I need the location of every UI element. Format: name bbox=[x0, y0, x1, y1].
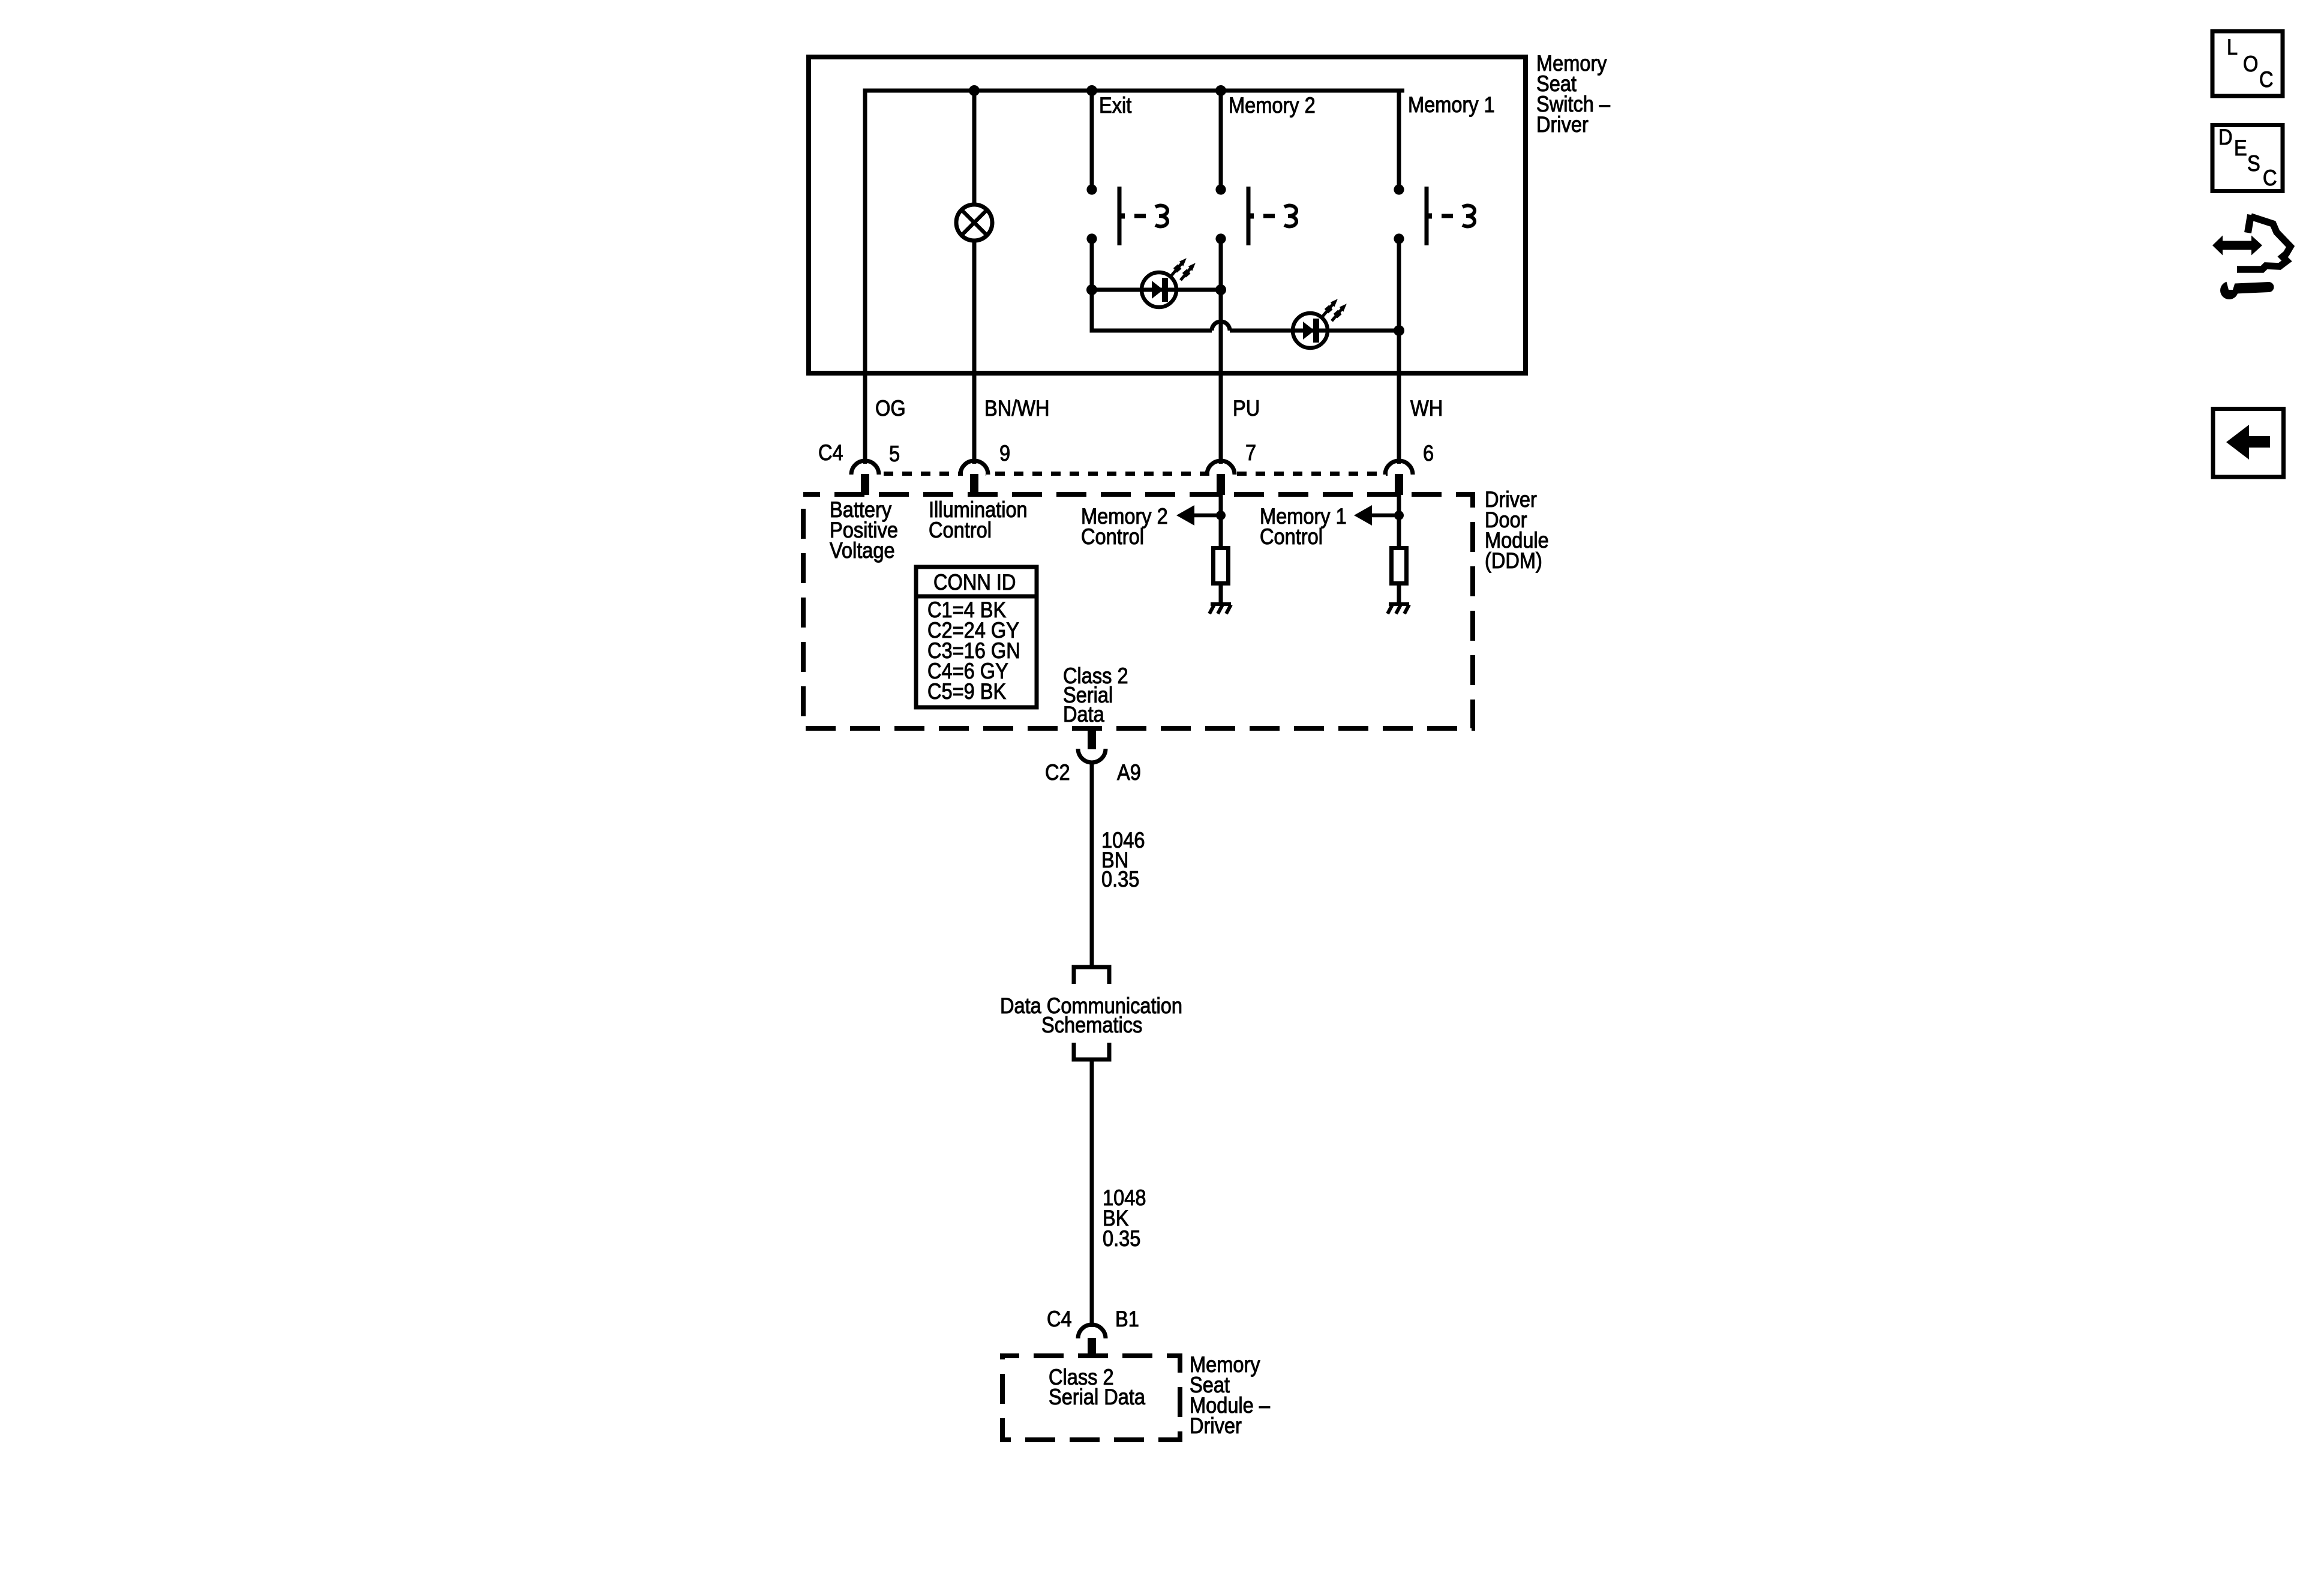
wire: WH memory 1 control bbox=[1397, 373, 1401, 464]
label: Illumination Control bbox=[929, 497, 1028, 542]
svg-text:C: C bbox=[2259, 67, 2274, 92]
svg-text:C4: C4 bbox=[1047, 1307, 1072, 1331]
signal arrow: Memory 2 Control bbox=[1176, 505, 1226, 526]
connector C4 pin 6 bbox=[1385, 461, 1413, 495]
connector C4 pin 5 bbox=[851, 461, 879, 495]
svg-text:Driver: Driver bbox=[1536, 112, 1589, 137]
label: Class 2 Serial Data (DDM pin) bbox=[1063, 664, 1128, 727]
svg-text:6: 6 bbox=[1423, 441, 1434, 466]
node: LED1 row at Exit column bbox=[1086, 284, 1097, 295]
node: bus junction at illumination lamp bbox=[969, 85, 980, 96]
svg-text:Memory 1: Memory 1 bbox=[1408, 92, 1495, 117]
svg-text:S: S bbox=[2247, 151, 2260, 176]
harness dashed line at connector C4 bbox=[865, 472, 1399, 476]
wire: battery supply bus (top horizontal) bbox=[865, 91, 1404, 373]
switch: Memory 2 (momentary) bbox=[1215, 184, 1296, 245]
connector C2 pin A9 bbox=[1078, 728, 1106, 763]
value label: 1048 BK 0.35 bbox=[1103, 1185, 1146, 1251]
svg-text:WH: WH bbox=[1410, 396, 1443, 421]
node: LED1 row at Memory 2 column bbox=[1215, 284, 1226, 295]
svg-text:Serial Data: Serial Data bbox=[1049, 1385, 1146, 1409]
icon: LOC button bbox=[2212, 31, 2283, 96]
svg-text:C2: C2 bbox=[1045, 760, 1070, 785]
wire: resistor to ground (Memory 1) bbox=[1397, 583, 1401, 603]
wire: BN/WH illumination control bbox=[972, 373, 977, 464]
off-page connector: Data Communication Schematics (bottom bracket) bbox=[1074, 1043, 1109, 1059]
svg-text:CONN ID: CONN ID bbox=[933, 570, 1016, 595]
wire: OG battery positive voltage bbox=[863, 373, 867, 464]
lamp: illumination bulb bbox=[956, 205, 992, 241]
label: pin B1 bbox=[1115, 1307, 1139, 1331]
svg-text:B1: B1 bbox=[1115, 1307, 1139, 1331]
svg-text:Memory 2: Memory 2 bbox=[1229, 93, 1316, 118]
label: Memory 2 bbox=[1229, 93, 1316, 118]
svg-text:Voltage: Voltage bbox=[830, 538, 895, 563]
label: Exit bbox=[1099, 93, 1132, 118]
svg-text:Exit: Exit bbox=[1099, 93, 1132, 118]
pin number 7 bbox=[1245, 440, 1256, 465]
svg-text:L: L bbox=[2227, 35, 2238, 59]
svg-text:C: C bbox=[2263, 166, 2277, 190]
label: Memory 2 Control bbox=[1081, 504, 1168, 549]
svg-text:5: 5 bbox=[889, 442, 900, 466]
resistor: Memory 2 input pull bbox=[1214, 548, 1229, 584]
label: Class 2 Serial Data (memory seat module pin) bbox=[1049, 1365, 1146, 1409]
label: Driver Door Module (DDM) bbox=[1485, 487, 1549, 573]
label: Data Communication Schematics bbox=[1000, 993, 1182, 1037]
wire: WH inside DDM to resistor bbox=[1397, 494, 1401, 548]
connector C4 pin B1 bbox=[1078, 1325, 1106, 1357]
off-page connector: Data Communication Schematics (top bracket) bbox=[1074, 967, 1109, 984]
label: connector C4 bbox=[818, 440, 843, 465]
wire: circuit 1046 BN 0.35 class 2 serial data bbox=[1090, 761, 1094, 967]
connector C4 pin 7 bbox=[1207, 461, 1235, 495]
wire: PU inside DDM to resistor bbox=[1219, 494, 1223, 548]
svg-text:BN/WH: BN/WH bbox=[984, 396, 1050, 421]
label: pin A9 bbox=[1117, 760, 1141, 785]
svg-text:Control: Control bbox=[1081, 524, 1144, 549]
svg-text:Control: Control bbox=[1260, 524, 1323, 549]
wire: Memory 2 switch column (PU output) bbox=[1219, 91, 1223, 373]
label: PU bbox=[1233, 396, 1260, 421]
pin number 5 bbox=[889, 442, 900, 466]
node: LED2 row at Memory 1 column bbox=[1394, 325, 1404, 336]
label: Memory Seat Module - Driver bbox=[1190, 1352, 1270, 1438]
label: Battery Positive Voltage bbox=[830, 497, 898, 563]
svg-text:A9: A9 bbox=[1117, 760, 1141, 785]
node: bus junction at Memory 2 switch bbox=[1215, 85, 1226, 96]
svg-text:OG: OG bbox=[875, 396, 906, 421]
svg-text:Control: Control bbox=[929, 518, 992, 542]
LED D2: memory indicator bbox=[1293, 296, 1349, 348]
svg-text:0.35: 0.35 bbox=[1101, 867, 1139, 891]
value label: 1046 BN 0.35 bbox=[1101, 828, 1145, 891]
label: WH bbox=[1410, 396, 1443, 421]
resistor: Memory 1 input pull bbox=[1392, 548, 1407, 584]
wire: LED2 row (Exit column to Memory 1 column) with hop over PU bbox=[1212, 322, 1399, 331]
svg-text:PU: PU bbox=[1233, 396, 1260, 421]
ground: DDM internal ground (Memory 2) bbox=[1209, 604, 1231, 614]
connector C4 pin 9 bbox=[960, 461, 988, 495]
wire: LED1 row (Exit to Memory 2) bbox=[1092, 288, 1221, 292]
wire: circuit 1048 BK 0.35 class 2 serial data bbox=[1090, 1059, 1094, 1327]
label: connector C4 (memory seat module) bbox=[1047, 1307, 1072, 1331]
wire: Memory 1 switch column (WH output) bbox=[1397, 239, 1401, 373]
wire: Exit switch column bbox=[1092, 91, 1212, 331]
label: Memory Seat Switch - Driver bbox=[1536, 51, 1611, 137]
LED D1: memory indicator bbox=[1142, 256, 1198, 307]
label: connector C2 bbox=[1045, 760, 1070, 785]
icon: navigate schematic (double arrow with part outline and wrench) bbox=[2212, 215, 2290, 299]
ground: DDM internal ground (Memory 1) bbox=[1388, 604, 1409, 614]
pin number 9 bbox=[999, 441, 1010, 466]
svg-text:D: D bbox=[2218, 125, 2233, 149]
svg-text:O: O bbox=[2243, 52, 2258, 76]
module box: Driver Door Module (DDM), dashed bbox=[803, 494, 1473, 728]
label: BN/WH bbox=[984, 396, 1050, 421]
svg-text:C4: C4 bbox=[818, 440, 843, 465]
svg-text:0.35: 0.35 bbox=[1103, 1226, 1140, 1251]
table: CONN ID bbox=[916, 567, 1037, 707]
switch: Memory 1 (momentary) bbox=[1394, 184, 1475, 245]
signal arrow: Memory 1 Control bbox=[1354, 505, 1404, 526]
svg-text:Driver: Driver bbox=[1190, 1413, 1242, 1438]
label: Memory 1 bbox=[1408, 92, 1495, 117]
switch: Exit (momentary) bbox=[1086, 184, 1167, 245]
svg-text:7: 7 bbox=[1245, 440, 1256, 465]
svg-text:E: E bbox=[2234, 136, 2247, 160]
svg-text:9: 9 bbox=[999, 441, 1010, 466]
wire: resistor to ground (Memory 2) bbox=[1219, 583, 1223, 603]
svg-text:Schematics: Schematics bbox=[1041, 1013, 1142, 1037]
wire: PU memory 2 control bbox=[1219, 373, 1223, 464]
icon: back arrow button bbox=[2213, 409, 2284, 478]
wire: illumination lamp feed (BN/WH column) bbox=[972, 91, 977, 373]
svg-text:C5=9 BK: C5=9 BK bbox=[927, 679, 1006, 704]
module box: Memory Seat Module - Driver, dashed bbox=[1002, 1356, 1180, 1440]
label: OG bbox=[875, 396, 906, 421]
svg-text:(DDM): (DDM) bbox=[1485, 548, 1542, 573]
node: bus junction at Exit switch bbox=[1086, 85, 1097, 96]
module box: Memory Seat Switch - Driver bbox=[809, 57, 1526, 373]
label: Memory 1 Control bbox=[1260, 504, 1347, 549]
pin number 6 bbox=[1423, 441, 1434, 466]
icon: DESC button bbox=[2212, 125, 2283, 191]
svg-text:Data: Data bbox=[1063, 702, 1104, 727]
